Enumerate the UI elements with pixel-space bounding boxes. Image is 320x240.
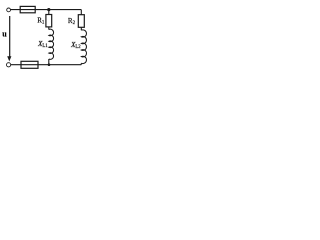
wire branch1 bottom xyxy=(48,59,50,65)
node bottom junction xyxy=(48,63,51,66)
inductor XL1 xyxy=(49,29,54,59)
voltage arrow line u xyxy=(9,16,11,57)
wire branch2 top xyxy=(80,10,82,15)
wire branch1 mid xyxy=(48,27,50,30)
node top junction xyxy=(47,8,50,11)
wire branch1 top xyxy=(48,10,50,15)
wire branch2 bottom xyxy=(80,63,82,64)
terminal bottom-left xyxy=(7,63,11,67)
resistor box bottom line xyxy=(21,61,38,68)
svg-text:u: u xyxy=(2,29,7,38)
resistor box top line xyxy=(20,6,35,12)
inductor XL2 xyxy=(81,30,86,64)
resistor R1 xyxy=(46,15,52,27)
wire top horizontal xyxy=(10,9,81,11)
terminal top-left xyxy=(7,8,11,12)
wire branch2 mid xyxy=(80,27,82,30)
resistor R2 xyxy=(78,15,84,28)
wire bottom horizontal xyxy=(11,64,82,66)
voltage arrowhead xyxy=(7,56,11,61)
